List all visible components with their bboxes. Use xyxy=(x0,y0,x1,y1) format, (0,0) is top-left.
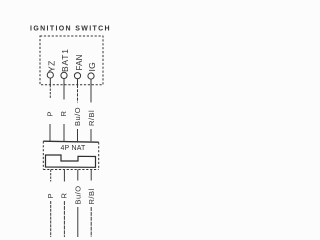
svg-text:P: P xyxy=(45,111,54,117)
svg-text:R: R xyxy=(60,193,69,199)
svg-text:BAT1: BAT1 xyxy=(60,48,70,72)
wire stub pin BAT1 to box edge xyxy=(63,78,65,85)
wire Bu/O bottom segment xyxy=(77,207,79,237)
connector 4P NAT (dashed box) xyxy=(43,141,98,169)
wire R/Bl bottom segment xyxy=(90,207,92,237)
wire stub pin IG to box edge xyxy=(90,79,92,85)
connector body outline (notched housing profile) xyxy=(46,155,96,167)
wire R bottom segment xyxy=(63,201,65,237)
svg-text:Bu/O: Bu/O xyxy=(74,185,83,204)
svg-text:IGNITION SWITCH: IGNITION SWITCH xyxy=(30,26,111,33)
wire R/Bl into 4P connector xyxy=(90,129,92,141)
pin YZ (terminal circle) xyxy=(47,72,53,78)
connector housing IGNITION SWITCH (dashed box) xyxy=(40,36,103,85)
wire P below connector xyxy=(50,170,52,182)
svg-text:Bu/O: Bu/O xyxy=(73,107,82,126)
wire R upper segment xyxy=(63,85,65,100)
svg-text:R: R xyxy=(59,111,68,117)
svg-text:P: P xyxy=(46,193,55,199)
pin FAN (terminal circle) xyxy=(74,73,80,79)
svg-text:R/Bl: R/Bl xyxy=(87,110,96,126)
pin BAT1 (terminal circle) xyxy=(61,72,67,78)
svg-text:R/Bl: R/Bl xyxy=(87,188,96,204)
wire P upper segment xyxy=(49,85,51,99)
wire R/Bl below connector xyxy=(90,170,92,181)
wire P bottom segment xyxy=(50,201,52,237)
wire Bu/O upper segment xyxy=(77,85,79,103)
pin IG (terminal circle) xyxy=(88,73,94,79)
wire R into 4P connector xyxy=(63,124,65,141)
wire stub pin FAN to box edge xyxy=(77,79,79,85)
wire R below connector xyxy=(63,170,65,182)
svg-text:IG: IG xyxy=(87,62,97,72)
svg-text:YZ: YZ xyxy=(47,60,57,72)
wire stub pin YZ to box edge xyxy=(49,78,51,85)
svg-text:FAN: FAN xyxy=(75,54,84,70)
wire Bu/O below connector xyxy=(77,170,79,181)
wire P into 4P connector xyxy=(49,124,51,141)
svg-text:4P NAT: 4P NAT xyxy=(60,145,86,152)
wire Bu/O into 4P connector xyxy=(77,129,79,141)
wire R/Bl upper segment xyxy=(90,85,92,103)
